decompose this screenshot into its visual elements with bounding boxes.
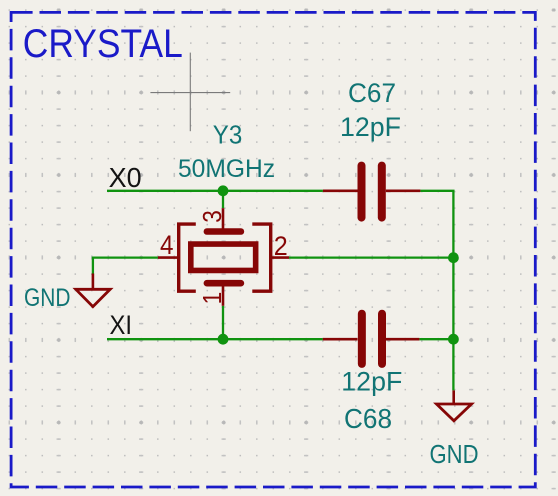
svg-text:3: 3 (197, 210, 227, 223)
svg-text:Y3: Y3 (213, 120, 243, 150)
svg-text:XI: XI (110, 310, 133, 340)
svg-text:CRYSTAL: CRYSTAL (23, 22, 183, 66)
svg-text:2: 2 (274, 231, 288, 261)
svg-text:4: 4 (160, 230, 174, 260)
svg-text:C67: C67 (348, 78, 396, 108)
svg-text:1: 1 (197, 292, 227, 305)
svg-text:C68: C68 (344, 403, 392, 434)
svg-text:GND: GND (430, 441, 479, 469)
svg-text:X0: X0 (109, 162, 142, 193)
svg-text:12pF: 12pF (340, 112, 401, 142)
svg-text:GND: GND (24, 284, 71, 312)
svg-text:12pF: 12pF (341, 367, 402, 397)
svg-text:50MGHz: 50MGHz (178, 155, 275, 183)
